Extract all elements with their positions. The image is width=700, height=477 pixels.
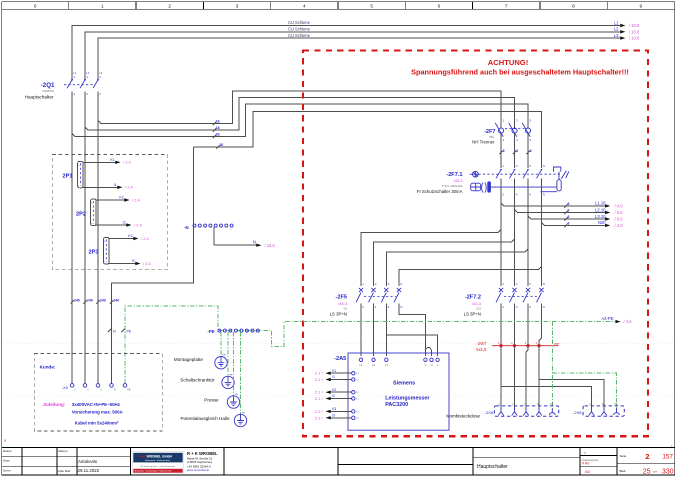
svg-text:Vorsicherung max. 500A: Vorsicherung max. 500A bbox=[72, 409, 124, 414]
svg-text:Presse: Presse bbox=[204, 398, 219, 403]
socket contact 1 bbox=[589, 403, 595, 416]
svg-text:/ 10.0: / 10.0 bbox=[629, 23, 640, 28]
svg-text:6: 6 bbox=[568, 209, 570, 213]
wire branch L1 to socket 2 bbox=[501, 386, 592, 409]
wire F7.2 L3 down bbox=[526, 303, 528, 409]
svg-text:K3: K3 bbox=[332, 407, 336, 411]
svg-text:Kunde:: Kunde: bbox=[40, 364, 56, 369]
wire L3 RCD to F7.2 bbox=[527, 178, 529, 286]
wire tap N20 bbox=[542, 222, 606, 225]
company address bbox=[187, 451, 218, 472]
wire jumper PAC supply N bbox=[425, 347, 431, 356]
svg-text:N: N bbox=[113, 330, 116, 334]
svg-text:L2: L2 bbox=[614, 27, 619, 32]
svg-text:N: N bbox=[400, 305, 402, 309]
power meter A5 (-2A5 Siemens PAC3200) bbox=[334, 353, 449, 430]
wire tap to F5 pole 1 bbox=[361, 229, 501, 286]
svg-text:8: 8 bbox=[572, 4, 575, 9]
svg-text:2.1 /: 2.1 / bbox=[315, 371, 324, 376]
svg-text:9: 9 bbox=[640, 4, 643, 9]
label N PE feed bbox=[108, 329, 111, 333]
svg-text:/ 2.4: / 2.4 bbox=[141, 236, 150, 241]
wire L1 RCD to F7.2 bbox=[500, 178, 502, 286]
svg-text:29.11.2022: 29.11.2022 bbox=[78, 468, 100, 473]
svg-text:# A0: # A0 bbox=[582, 462, 589, 466]
svg-text:A0: A0 bbox=[585, 469, 591, 474]
wire PE main (green) bbox=[125, 306, 615, 383]
svg-text:-2X8: -2X8 bbox=[485, 410, 494, 415]
svg-text:2.1 /: 2.1 / bbox=[315, 377, 324, 382]
svg-text:-2A5: -2A5 bbox=[334, 356, 346, 362]
svg-text:FI Schutzschalter 30mA: FI Schutzschalter 30mA bbox=[417, 189, 463, 194]
svg-text:WROBEL GmbH: WROBEL GmbH bbox=[147, 455, 173, 459]
svg-text:Leistungsmesser: Leistungsmesser bbox=[385, 396, 430, 402]
svg-text:35A: 35A bbox=[489, 135, 494, 139]
svg-text:K3: K3 bbox=[128, 234, 132, 238]
wire F5 L3 branch to PAC supply L bbox=[386, 335, 437, 356]
svg-text:N: N bbox=[114, 388, 116, 391]
svg-text:V: V bbox=[425, 363, 427, 367]
svg-text:I1: I1 bbox=[114, 183, 117, 187]
wire tap L2.10 bbox=[515, 210, 606, 213]
socket box -2X8 bbox=[583, 406, 624, 416]
svg-text:N: N bbox=[400, 282, 402, 286]
svg-text:N: N bbox=[602, 403, 604, 406]
main switch Q1 (-2Q1 Hauptschalter) bbox=[25, 72, 103, 100]
wire L2 RCD to F7.2 bbox=[514, 178, 516, 286]
terminal strip -N bbox=[184, 224, 233, 231]
wire gauge labels 6 after F7 bbox=[499, 149, 531, 155]
wire tap L1.10 bbox=[501, 203, 605, 206]
svg-text:Kabel min 5x240mm²: Kabel min 5x240mm² bbox=[75, 421, 119, 426]
svg-text:-2F5: -2F5 bbox=[335, 294, 347, 300]
terminal strip -X0 bbox=[62, 384, 131, 392]
wire F5 L1 to PAC bbox=[360, 303, 362, 356]
svg-text:3x400VAC+N+PE~50Hz: 3x400VAC+N+PE~50Hz bbox=[72, 402, 121, 407]
wire PAC terminal I2 bbox=[352, 397, 355, 400]
svg-text:Schaltschranktür: Schaltschranktür bbox=[180, 378, 215, 383]
svg-text:240: 240 bbox=[113, 298, 119, 302]
svg-text:R+K: R+K bbox=[139, 455, 146, 459]
svg-text:N: N bbox=[543, 164, 545, 168]
wire L1 vertical bbox=[71, 92, 73, 384]
wire bus L2 (CU Schiene) bbox=[85, 32, 620, 80]
svg-text:/ 2.4: / 2.4 bbox=[125, 185, 134, 190]
wire I3 tap bbox=[109, 263, 136, 265]
current transformer 2P3 bbox=[89, 238, 110, 265]
ground symbol Presse bbox=[227, 394, 239, 408]
circuit breaker -2F5 bbox=[330, 282, 403, 317]
svg-text:/ 2.4: / 2.4 bbox=[134, 222, 143, 227]
svg-text:PE: PE bbox=[127, 388, 131, 391]
dashed box CT group bbox=[52, 155, 168, 270]
svg-text:2.2 /: 2.2 / bbox=[315, 409, 324, 414]
svg-text:N20: N20 bbox=[598, 220, 606, 225]
terminal strip -PE bbox=[208, 329, 260, 334]
svg-text:L2.10: L2.10 bbox=[595, 207, 606, 212]
wire F5 N to PAC bbox=[399, 303, 425, 356]
wire branch N to socket 2 bbox=[539, 380, 604, 410]
svg-text:ACHTUNG!: ACHTUNG! bbox=[488, 58, 529, 67]
svg-text:L3.10: L3.10 bbox=[595, 214, 606, 219]
wire bus L3 (CU Schiene) bbox=[98, 38, 620, 79]
svg-text:N: N bbox=[543, 193, 545, 197]
svg-text:/43.3: /43.3 bbox=[338, 301, 348, 306]
svg-text:I3: I3 bbox=[132, 259, 135, 263]
svg-text:Spannungsführend auch bei ausg: Spannungsführend auch bei ausgeschaltete… bbox=[411, 68, 629, 77]
wire F5 L3 to PAC bbox=[385, 303, 387, 356]
svg-text:/ 2.4: / 2.4 bbox=[143, 261, 152, 266]
svg-text:240: 240 bbox=[87, 298, 93, 302]
svg-text:LS 3P+N: LS 3P+N bbox=[330, 312, 347, 317]
svg-text:www.rk-wrobel.at: www.rk-wrobel.at bbox=[187, 468, 209, 472]
svg-text:Datum: Datum bbox=[3, 449, 12, 453]
wire F5 L2 to PAC bbox=[373, 303, 375, 356]
wire K1 tap bbox=[83, 161, 116, 163]
svg-text:Kombisteckdose: Kombisteckdose bbox=[446, 413, 480, 418]
wire tap L1 to fuse field bbox=[72, 104, 528, 137]
svg-text:2.1 /: 2.1 / bbox=[315, 390, 324, 395]
wire K2 tap bbox=[96, 199, 125, 201]
svg-text:Datum: Datum bbox=[59, 449, 68, 453]
svg-text:C6: C6 bbox=[344, 306, 348, 310]
svg-text:N: N bbox=[431, 363, 433, 367]
svg-text:/ 10.0: / 10.0 bbox=[265, 243, 276, 248]
svg-text:/ 10.0: / 10.0 bbox=[629, 29, 640, 34]
svg-text:7: 7 bbox=[505, 4, 508, 9]
svg-text:/ 4.6: / 4.6 bbox=[624, 319, 633, 324]
svg-text:4: 4 bbox=[303, 4, 306, 9]
wire PAC terminal I1 bbox=[352, 378, 355, 381]
svg-text:-2X8: -2X8 bbox=[573, 410, 582, 415]
wire PE drop to Montageplatte bbox=[220, 332, 222, 356]
wire segments F7 to RCD bbox=[500, 134, 502, 169]
svg-text:Hauptschalter: Hauptschalter bbox=[477, 464, 508, 470]
wire I1 tap bbox=[83, 186, 118, 188]
svg-text:16: 16 bbox=[219, 143, 223, 147]
svg-text:2.2 /: 2.2 / bbox=[315, 415, 324, 420]
wire tap to F5 pole 4 bbox=[399, 267, 542, 286]
wire gauge labels 240 bbox=[71, 298, 120, 304]
svg-text:2P3: 2P3 bbox=[89, 249, 99, 255]
svg-text:NH Trenner: NH Trenner bbox=[472, 140, 495, 145]
svg-text:I2: I2 bbox=[123, 221, 126, 225]
wire N RCD to F7.2 bbox=[541, 178, 543, 286]
svg-text:von: von bbox=[653, 471, 658, 474]
wire PE drop to Presse bbox=[233, 332, 235, 396]
svg-text:Zuleitung:: Zuleitung: bbox=[43, 402, 66, 407]
svg-text:240: 240 bbox=[100, 298, 106, 302]
svg-text:K2: K2 bbox=[332, 388, 336, 392]
title block bbox=[2, 448, 675, 476]
svg-text:L1: L1 bbox=[614, 20, 619, 25]
svg-text:PAC3200: PAC3200 bbox=[385, 402, 408, 408]
ground symbol Montageplatte bbox=[215, 355, 227, 369]
svg-text:2: 2 bbox=[645, 452, 649, 461]
svg-text:CU Schiene: CU Schiene bbox=[288, 27, 311, 32]
svg-text:/ 2.4: / 2.4 bbox=[132, 197, 141, 202]
svg-text:6: 6 bbox=[568, 222, 570, 226]
svg-text:TYP A, 40A/0,03A: TYP A, 40A/0,03A bbox=[442, 184, 463, 188]
svg-text:/43.3: /43.3 bbox=[472, 301, 482, 306]
svg-text:A-8605 Kapfenberg: A-8605 Kapfenberg bbox=[187, 460, 212, 464]
wire PE to socket1 bbox=[551, 322, 553, 410]
socket box -2X8 bbox=[494, 406, 558, 416]
svg-text:/ 4.0: / 4.0 bbox=[615, 203, 624, 208]
svg-text:-2W7: -2W7 bbox=[476, 341, 487, 346]
fuse switch F7 (-2F7 NH Trenner) bbox=[472, 119, 531, 145]
wire tap L2 to fuse field bbox=[85, 98, 515, 131]
circuit breaker -2F7.2 bbox=[464, 282, 545, 317]
svg-text:L1.10: L1.10 bbox=[595, 201, 606, 206]
svg-text:Schaltanlagenbau · Industriete: Schaltanlagenbau · Industrietechnik bbox=[140, 465, 176, 468]
wire PE drop to Potentialausgleich Halle bbox=[240, 332, 242, 414]
svg-text:6: 6 bbox=[530, 149, 532, 153]
svg-text:/ 2.4: / 2.4 bbox=[123, 160, 132, 165]
svg-text:I2: I2 bbox=[332, 394, 335, 398]
socket contact L1 bbox=[498, 403, 504, 416]
svg-text:-N: -N bbox=[184, 225, 188, 230]
svg-text:Norm: Norm bbox=[3, 469, 11, 473]
svg-text:1: 1 bbox=[101, 4, 104, 9]
wire tap L3 to fuse field bbox=[98, 91, 501, 128]
ground symbol Potentialausgleich Halle bbox=[234, 413, 246, 427]
svg-text:/ 6.6: / 6.6 bbox=[615, 217, 624, 222]
wire N branch to reference bbox=[214, 227, 256, 245]
svg-text:6: 6 bbox=[516, 149, 518, 153]
svg-text:a: a bbox=[4, 439, 6, 443]
node A2-PE bbox=[615, 320, 620, 323]
svg-text:0: 0 bbox=[34, 4, 37, 9]
svg-text:-2Q1: -2Q1 bbox=[41, 82, 55, 89]
wire tap N to RCD bbox=[194, 112, 542, 169]
svg-text:KRW5704: KRW5704 bbox=[43, 90, 55, 93]
wire tap L3.10 bbox=[528, 216, 605, 219]
svg-text:2P2: 2P2 bbox=[76, 211, 86, 217]
svg-text:Potentialausgleich Halle: Potentialausgleich Halle bbox=[180, 416, 229, 421]
svg-text:Antalovits: Antalovits bbox=[78, 459, 98, 464]
wire K3 tap bbox=[109, 238, 134, 240]
svg-text:L3: L3 bbox=[614, 33, 619, 38]
wire I2 tap bbox=[96, 224, 127, 226]
wire PAC terminal K3 bbox=[352, 410, 355, 413]
current transformer 2P2 bbox=[76, 199, 96, 226]
cable W7 (-2W7 5x1,5) bbox=[476, 341, 560, 352]
svg-text:Automation · Elektrotechnik: Automation · Elektrotechnik bbox=[145, 459, 169, 462]
logo R+K WROBEL GmbH bbox=[132, 451, 183, 473]
svg-text:16: 16 bbox=[216, 120, 220, 124]
svg-text:Hauptschalter: Hauptschalter bbox=[25, 95, 54, 100]
wire bus L1 (CU Schiene) bbox=[72, 26, 620, 80]
sheet info cells bbox=[582, 451, 674, 476]
svg-text:2: 2 bbox=[168, 4, 171, 9]
wire tap to F5 pole 2 bbox=[374, 239, 515, 286]
current transformer 2P1 bbox=[63, 161, 84, 188]
svg-text:240: 240 bbox=[74, 298, 80, 302]
svg-text:6: 6 bbox=[568, 215, 570, 219]
socket contact L3 bbox=[523, 403, 529, 416]
socket contact L2 bbox=[512, 403, 518, 416]
svg-text:6: 6 bbox=[503, 149, 505, 153]
socket contact PE bbox=[549, 403, 555, 415]
svg-text:-X0: -X0 bbox=[62, 385, 69, 390]
svg-text:PE: PE bbox=[614, 403, 618, 406]
svg-text:N: N bbox=[543, 305, 545, 309]
svg-text:16: 16 bbox=[216, 126, 220, 130]
wire PAC terminal I3 bbox=[352, 416, 355, 419]
wire PE to socket2 bbox=[552, 373, 616, 409]
svg-text:330: 330 bbox=[662, 468, 674, 475]
svg-text:Siemens: Siemens bbox=[393, 381, 415, 387]
svg-text:Gepr.: Gepr. bbox=[3, 458, 11, 462]
svg-text:K1: K1 bbox=[332, 369, 336, 373]
svg-text:N: N bbox=[537, 403, 539, 406]
svg-text:25: 25 bbox=[643, 468, 651, 475]
svg-text:16: 16 bbox=[216, 133, 220, 137]
wire PAC terminal K2 bbox=[352, 391, 355, 394]
svg-text:-2F7.2: -2F7.2 bbox=[465, 294, 481, 300]
svg-text:CU Schiene: CU Schiene bbox=[288, 20, 311, 25]
wire L3 vertical bbox=[97, 92, 99, 384]
socket contact PE bbox=[614, 403, 620, 415]
page guide dotted lines bbox=[2, 343, 674, 345]
wire tap to F5 pole 3 bbox=[386, 249, 528, 286]
warning outline box bbox=[303, 51, 648, 437]
RCD breaker F7.1 (-2F7.1 FI Schutzschalter 30mA) bbox=[417, 164, 569, 197]
svg-text:C16: C16 bbox=[476, 306, 481, 310]
socket contact N bbox=[536, 403, 542, 416]
wire gauge labels 16 bbox=[213, 120, 223, 149]
wire L2 vertical bbox=[84, 92, 86, 384]
svg-text:/ 4.0: / 4.0 bbox=[615, 223, 624, 228]
svg-text:-2F7: -2F7 bbox=[484, 129, 496, 135]
svg-text:157: 157 bbox=[662, 454, 673, 461]
svg-text:-PE: -PE bbox=[208, 329, 215, 334]
ground symbol Schaltschrankt&#252;r bbox=[222, 374, 234, 388]
svg-text:3: 3 bbox=[236, 4, 239, 9]
wire F7.2 N down bbox=[539, 303, 542, 409]
svg-text:R + K WROBEL: R + K WROBEL bbox=[187, 451, 218, 456]
svg-text:/ 10.0: / 10.0 bbox=[629, 36, 640, 41]
svg-text:CU Schiene: CU Schiene bbox=[288, 33, 311, 38]
svg-text:A2-PE: A2-PE bbox=[601, 316, 613, 321]
svg-text:I1: I1 bbox=[332, 375, 335, 379]
svg-text:Blatt: Blatt bbox=[620, 469, 626, 473]
svg-text:Montageplatte: Montageplatte bbox=[174, 357, 204, 362]
svg-text:K2: K2 bbox=[119, 196, 123, 200]
svg-text:Automation • Schaltanlagen • E: Automation • Schaltanlagen • Elektrotech… bbox=[135, 470, 172, 473]
svg-text:N: N bbox=[253, 240, 256, 245]
svg-text:6: 6 bbox=[438, 4, 441, 9]
svg-text:2P1: 2P1 bbox=[63, 173, 73, 179]
svg-text:PE: PE bbox=[550, 403, 554, 406]
svg-text:gnge: gnge bbox=[554, 343, 560, 346]
svg-text:/43.3: /43.3 bbox=[454, 178, 464, 183]
svg-text:=: = bbox=[584, 451, 586, 455]
wire PAC terminal K1 bbox=[352, 372, 355, 375]
svg-text:Anla. Bud: Anla. Bud bbox=[58, 469, 71, 473]
wire F7.2 L2 down bbox=[514, 303, 516, 409]
wire F7.2 L1 down bbox=[500, 303, 502, 409]
wire PE drop to Schaltschrankt&#252;r bbox=[227, 332, 229, 376]
svg-text:Seite: Seite bbox=[620, 454, 627, 458]
svg-text:LS 3P+N: LS 3P+N bbox=[464, 312, 481, 317]
svg-text:I3: I3 bbox=[332, 414, 335, 418]
svg-text:N: N bbox=[543, 282, 545, 286]
svg-text:/ 5.6: / 5.6 bbox=[615, 210, 624, 215]
svg-text:K1: K1 bbox=[110, 158, 114, 162]
socket contact N bbox=[601, 403, 607, 416]
svg-text:2.1 /: 2.1 / bbox=[315, 396, 324, 401]
wire N vertical to terminal row bbox=[112, 147, 194, 383]
svg-text:PE: PE bbox=[127, 330, 132, 334]
svg-text:5: 5 bbox=[370, 4, 373, 9]
dashed box Kunde bbox=[34, 354, 162, 432]
svg-text:5x1,5: 5x1,5 bbox=[476, 347, 487, 352]
svg-text:6: 6 bbox=[568, 202, 570, 206]
